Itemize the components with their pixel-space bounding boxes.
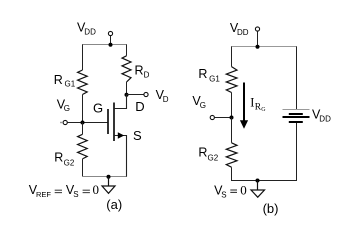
wire drain lead (a) bbox=[114, 95, 127, 109]
svg-text:G: G bbox=[261, 107, 266, 113]
node ground junction (a) bbox=[107, 175, 111, 179]
resistor RG2 (b) bbox=[226, 143, 237, 167]
wire VG terminal tick (a) bbox=[60, 122, 63, 124]
svg-text:R: R bbox=[54, 150, 63, 164]
svg-text:R: R bbox=[198, 67, 207, 81]
ground (b) bbox=[251, 190, 265, 197]
svg-text:D: D bbox=[163, 95, 169, 104]
transistor Q1 channel bar bbox=[113, 103, 115, 142]
wire VDD stub (b) bbox=[257, 32, 259, 47]
node drain junction (a) bbox=[125, 93, 129, 97]
label equals 2 (a) bbox=[83, 190, 90, 192]
wire left branch upper (b) bbox=[231, 47, 233, 67]
node VDD junction (a) bbox=[109, 43, 113, 47]
node VDD junction (b) bbox=[256, 45, 260, 49]
current arrow IRG bbox=[243, 83, 245, 122]
wire source lead (a) bbox=[114, 136, 127, 177]
svg-text:(a): (a) bbox=[106, 197, 122, 212]
svg-text:G1: G1 bbox=[65, 80, 76, 89]
terminal VG (b) bbox=[210, 115, 214, 119]
wire right branch upper (b) bbox=[296, 47, 298, 110]
resistor RG1 (b) bbox=[226, 67, 237, 93]
current arrow IRG head bbox=[240, 120, 248, 129]
wire right branch lower (b) bbox=[296, 123, 298, 181]
svg-text:0: 0 bbox=[240, 182, 247, 197]
label equals (b) bbox=[230, 190, 237, 192]
terminal VDD (b) bbox=[255, 27, 259, 31]
svg-text:G1: G1 bbox=[209, 74, 220, 83]
wire VG to gate (a) bbox=[67, 122, 107, 124]
svg-text:S: S bbox=[133, 128, 142, 143]
battery VDD plate2 short bbox=[289, 113, 303, 115]
label equals 1 (a) bbox=[55, 190, 62, 192]
battery VDD plate1 long bbox=[283, 109, 310, 111]
resistor RD (a) bbox=[122, 56, 131, 82]
svg-text:S: S bbox=[221, 190, 226, 199]
wire VDD stub (a) bbox=[110, 36, 112, 45]
wire left branch upper (a) bbox=[82, 45, 84, 71]
wire ground stem (b) bbox=[257, 181, 259, 191]
svg-text:G: G bbox=[200, 101, 206, 110]
svg-text:DD: DD bbox=[237, 28, 249, 37]
ground (a) bbox=[102, 186, 115, 193]
svg-text:G: G bbox=[93, 101, 103, 116]
svg-text:DD: DD bbox=[84, 28, 96, 37]
wire bottom rail (a) bbox=[82, 176, 127, 178]
svg-text:G2: G2 bbox=[64, 158, 75, 167]
svg-text:0: 0 bbox=[93, 182, 100, 197]
battery VDD plate3 long bbox=[283, 116, 310, 118]
svg-text:D: D bbox=[144, 71, 150, 80]
resistor RG1 (a) bbox=[78, 70, 88, 95]
transistor Q1 gate bar bbox=[107, 109, 109, 134]
wire RD branch upper (a) bbox=[126, 45, 128, 56]
svg-text:DD: DD bbox=[319, 115, 331, 124]
svg-text:G2: G2 bbox=[208, 153, 219, 162]
wire top rail (b) bbox=[231, 46, 297, 48]
wire VG node down (b) bbox=[231, 118, 233, 143]
wire RG2 to bottom rail (a) bbox=[82, 159, 84, 177]
wire RG1 to VG node (a) bbox=[82, 95, 84, 123]
svg-text:D: D bbox=[135, 99, 144, 114]
svg-text:R: R bbox=[54, 73, 63, 87]
terminal VG (a) bbox=[63, 120, 67, 124]
wire top rail (a) bbox=[82, 44, 127, 46]
resistor RG2 (a) bbox=[78, 134, 88, 159]
wire bottom rail (b) bbox=[231, 180, 297, 182]
wire RG2 to bottom rail (b) bbox=[231, 167, 233, 180]
svg-text:R: R bbox=[135, 64, 144, 78]
wire RD to drain node (a) bbox=[126, 82, 128, 95]
wire VG node down (a) bbox=[82, 123, 84, 135]
svg-text:G: G bbox=[64, 104, 70, 113]
terminal VD (a) bbox=[144, 92, 148, 96]
wire VD stub (a) bbox=[127, 94, 144, 96]
terminal VDD (a) bbox=[108, 31, 112, 35]
svg-text:S: S bbox=[73, 190, 78, 199]
wire RG1 to VG node (b) bbox=[231, 93, 233, 118]
node VG junction (b) bbox=[230, 116, 234, 120]
svg-text:R: R bbox=[198, 146, 207, 160]
battery VDD plate4 short bbox=[289, 121, 303, 123]
wire VG stub (b) bbox=[215, 117, 232, 119]
svg-text:REF: REF bbox=[36, 190, 51, 199]
svg-text:(b): (b) bbox=[263, 201, 279, 216]
node VG junction (a) bbox=[81, 121, 85, 125]
wire ground stem (a) bbox=[108, 177, 110, 187]
node ground junction (b) bbox=[256, 179, 260, 183]
transistor Q1 source arrow bbox=[118, 132, 124, 139]
